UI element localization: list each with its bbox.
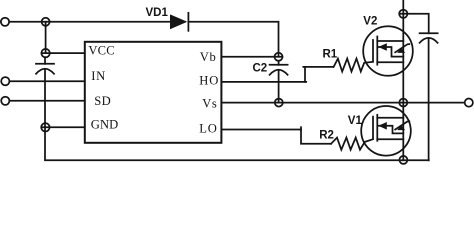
node D (Vb / C2 top) <box>275 53 283 61</box>
wire C2 bottom lead to Vs node <box>278 70 280 102</box>
node C (GND junction) <box>41 123 49 131</box>
svg-text:Vs: Vs <box>202 96 217 110</box>
capacitor C-left (VCC decoupling) <box>36 57 54 74</box>
transistor V2 (NMOS with body diode, high side) <box>363 26 413 76</box>
svg-text:VD1: VD1 <box>146 7 169 19</box>
svg-text:V1: V1 <box>348 115 363 127</box>
svg-text:SD: SD <box>94 94 111 108</box>
capacitor C2 <box>270 61 288 75</box>
resistor R2 <box>331 138 373 150</box>
wire Vs line (IC to right terminal) <box>221 102 464 104</box>
svg-text:IN: IN <box>91 69 106 83</box>
wire VCC branch vertical <box>45 22 47 53</box>
wire left cap lead down to bottom rail <box>45 69 429 160</box>
wire Vb pin to C2 node <box>221 56 282 58</box>
node F (V2 drain / top) <box>399 10 407 18</box>
terminal IN input <box>1 77 9 85</box>
svg-text:C2: C2 <box>253 63 268 75</box>
svg-text:HO: HO <box>199 73 219 87</box>
terminal SD input <box>1 97 9 105</box>
svg-text:V2: V2 <box>363 15 377 27</box>
svg-text:R2: R2 <box>319 130 334 142</box>
node E (C2 / Vs junction) <box>275 99 283 107</box>
capacitor C-right (bus cap) <box>420 33 438 160</box>
node A (top rail / VCC branch junction) <box>42 18 50 26</box>
wire IN to IC <box>9 80 84 82</box>
terminal top-left input <box>1 18 9 26</box>
svg-text:Vb: Vb <box>200 50 217 64</box>
wire top-right link to cap <box>400 14 429 33</box>
wire VCC to IC <box>42 52 85 54</box>
transistor V1 (NMOS with body diode, low side) <box>361 106 411 156</box>
svg-text:R1: R1 <box>323 49 338 61</box>
node G (Vs / half-bridge midpoint) <box>399 99 407 107</box>
wire top rail left (input to VD1 anode) <box>1 21 170 23</box>
IC U1 gate-driver box <box>85 42 222 143</box>
wire GND to IC <box>42 126 85 128</box>
node H (V1 source / bottom rail) <box>399 156 407 164</box>
terminal Vs output right <box>465 99 473 107</box>
wire SD to IC <box>9 100 84 102</box>
svg-text:LO: LO <box>199 121 217 135</box>
resistor R1 <box>334 59 373 72</box>
wire drain-source rail (top edge through V2, Vs, V1 to bottom rail) <box>402 0 404 160</box>
wire top rail right (VD1 cathode to Vb corner) <box>188 22 278 57</box>
svg-text:GND: GND <box>91 117 119 131</box>
wire LO pin to R2 (with step down) <box>221 129 301 131</box>
node B (VCC junction) <box>41 49 49 57</box>
wire HO pin to R1 (with step up) <box>221 81 306 83</box>
svg-text:VCC: VCC <box>88 43 115 57</box>
diode VD1 <box>170 13 188 31</box>
